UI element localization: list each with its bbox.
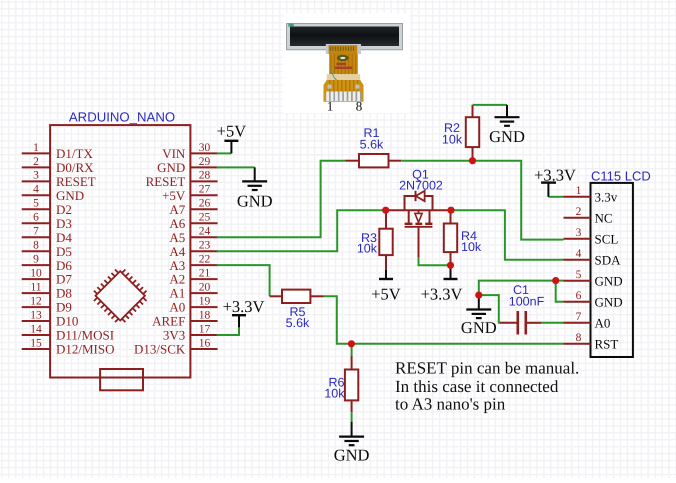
note text: [395, 358, 579, 413]
svg-text:to A3 nano's pin: to A3 nano's pin: [395, 394, 506, 413]
pin 25 A6: [169, 212, 217, 231]
svg-text:A7: A7: [169, 202, 185, 217]
resistor R2 leads: [472, 105, 474, 117]
svg-text:12: 12: [30, 295, 42, 307]
svg-text:10k: 10k: [442, 133, 463, 147]
svg-text:28: 28: [199, 170, 211, 182]
svg-text:GND: GND: [595, 274, 623, 289]
power +3.3V (R4 bottom): [421, 265, 463, 303]
power +5V (nano VIN): [217, 121, 247, 153]
ground GND (R6 bottom): [334, 422, 370, 465]
pin 26 A7: [169, 198, 217, 217]
wire to C115 pin6: [556, 281, 564, 302]
svg-text:VIN: VIN: [162, 146, 186, 161]
pin 23 A4: [169, 240, 217, 259]
pin 28 RESET: [146, 170, 218, 189]
nano chip icon (rotated QFP): [94, 270, 147, 323]
svg-text:A0: A0: [595, 316, 611, 331]
pin 6 D3: [22, 212, 72, 231]
connector pin 8 RST: [564, 332, 619, 351]
svg-text:GND: GND: [157, 160, 185, 175]
power +3.3V (C115 pin1): [534, 166, 576, 197]
resistor R2: [466, 117, 479, 147]
svg-text:2: 2: [33, 156, 39, 168]
svg-text:NC: NC: [595, 211, 613, 226]
wire R6 top: [351, 344, 353, 356]
svg-text:3.3v: 3.3v: [595, 190, 618, 205]
svg-text:9: 9: [33, 254, 39, 266]
svg-text:8: 8: [576, 332, 582, 344]
svg-text:D5: D5: [56, 244, 72, 259]
wire pin30 to +5V: [217, 152, 232, 154]
resistor R5: [282, 290, 310, 303]
svg-text:RESET: RESET: [56, 174, 96, 189]
ground GND (C1): [461, 295, 497, 337]
svg-text:21: 21: [199, 268, 211, 280]
svg-text:20: 20: [199, 282, 211, 294]
pin 22 A3: [169, 254, 217, 273]
junction RST net / R6 top: [348, 340, 355, 347]
svg-text:RESET pin can be manual.: RESET pin can be manual.: [395, 358, 579, 377]
transistor Q1 2N7002 (MOSFET with body diode): [386, 191, 451, 227]
svg-text:D13/SCK: D13/SCK: [134, 342, 186, 357]
LCD module photo: [283, 13, 410, 114]
svg-text:D8: D8: [56, 286, 72, 301]
pin 16 D13/SCK: [134, 337, 218, 356]
pin 11 D8: [22, 282, 72, 301]
pin 5 D2: [22, 198, 72, 217]
connector pin 5 GND: [564, 269, 623, 288]
svg-text:+5V: +5V: [162, 188, 186, 203]
svg-text:+5V: +5V: [217, 121, 247, 140]
svg-text:10k: 10k: [461, 240, 482, 254]
wire A3 (pin22) to R5: [217, 265, 270, 296]
junction Q1 source / R3 top: [382, 207, 389, 214]
svg-text:2N7002: 2N7002: [399, 178, 443, 192]
svg-text:22: 22: [199, 254, 211, 266]
svg-text:SCL: SCL: [595, 232, 619, 247]
svg-text:RESET: RESET: [146, 174, 186, 189]
pin 29 GND: [157, 156, 217, 175]
svg-text:ARDUINO_NANO: ARDUINO_NANO: [69, 110, 175, 125]
svg-text:29: 29: [199, 156, 211, 168]
svg-text:17: 17: [199, 323, 211, 335]
svg-text:7: 7: [33, 226, 39, 238]
svg-text:10k: 10k: [324, 387, 345, 401]
junction GND pin5 / pin6: [552, 277, 559, 284]
svg-text:+5V: +5V: [371, 284, 401, 303]
svg-text:D6: D6: [56, 258, 72, 273]
svg-text:4: 4: [576, 248, 582, 260]
svg-text:A3: A3: [169, 258, 185, 273]
junction R2 bottom / SCL net: [469, 157, 476, 164]
svg-text:GND: GND: [334, 445, 370, 464]
pin 30 VIN: [162, 142, 217, 161]
svg-text:D4: D4: [56, 230, 72, 245]
connector J? C115 LCD box: [591, 183, 633, 357]
pin 3 RESET: [22, 170, 96, 189]
svg-text:D7: D7: [56, 272, 72, 287]
svg-text:GND: GND: [595, 295, 623, 310]
pin 7 D4: [22, 226, 73, 245]
connector pin 3 SCL: [564, 227, 619, 246]
power +5V (R3 bottom): [371, 270, 401, 304]
resistor R3: [379, 229, 392, 255]
wire junction to C1 left: [479, 295, 501, 323]
pin 12 D9: [22, 295, 72, 314]
capacitor C1 plates: [516, 311, 519, 335]
pin 15 D12/MISO: [22, 337, 115, 356]
wire R1 to SCL (C115 pin3): [401, 161, 563, 240]
svg-text:+3.3V: +3.3V: [534, 166, 576, 185]
svg-text:100nF: 100nF: [509, 294, 545, 308]
junction Q1 drain / R4 top: [447, 207, 454, 214]
connector pin 1 3.3v: [564, 185, 618, 204]
svg-text:27: 27: [199, 184, 211, 196]
pin 27 +5V: [162, 184, 218, 203]
ground GND (R2 top): [489, 105, 525, 146]
pin 19 A0: [169, 295, 217, 314]
svg-text:7: 7: [576, 311, 582, 323]
resistor R4 leads: [450, 210, 452, 223]
svg-text:D2: D2: [56, 202, 72, 217]
capacitor C1 leads: [500, 322, 517, 324]
resistor R6: [345, 370, 358, 401]
wire Q1 drain to SDA (C115 pin4): [451, 210, 564, 260]
connector pin 7 A0: [564, 311, 611, 330]
svg-text:18: 18: [199, 309, 211, 321]
wire 3V3 (pin17) to +3.3V: [217, 327, 239, 335]
pin 17 3V3: [163, 323, 218, 342]
svg-text:8: 8: [356, 99, 363, 114]
pin 2 D0/RX: [22, 156, 94, 175]
Q1 body diode: [415, 191, 417, 201]
resistor R3 leads: [385, 210, 387, 229]
nano bottom connector rectangle: [100, 369, 143, 390]
pin 13 D10: [22, 309, 79, 328]
pin 8 D5: [22, 240, 72, 259]
pin 9 D6: [22, 254, 73, 273]
wire A4 (pin23) to Q1 source: [217, 210, 386, 251]
svg-text:1: 1: [33, 142, 39, 154]
pin 20 A1: [169, 282, 217, 301]
svg-text:D9: D9: [56, 300, 72, 315]
pin 14 D11/MOSI: [22, 323, 114, 342]
resistor R4: [444, 224, 457, 253]
pin 24 A5: [169, 226, 217, 245]
svg-text:3V3: 3V3: [163, 328, 185, 343]
svg-text:D1/TX: D1/TX: [56, 146, 93, 161]
connector pin 4 SDA: [564, 248, 622, 267]
svg-text:3: 3: [576, 227, 582, 239]
svg-text:5: 5: [576, 269, 582, 281]
connector pin 2 NC: [564, 206, 613, 225]
svg-text:A1: A1: [169, 286, 185, 301]
svg-text:A4: A4: [169, 244, 185, 259]
svg-text:10: 10: [30, 268, 42, 280]
svg-text:25: 25: [199, 212, 211, 224]
svg-text:23: 23: [199, 240, 211, 252]
svg-text:15: 15: [30, 337, 42, 349]
svg-text:D12/MISO: D12/MISO: [56, 342, 115, 357]
pin 4 GND: [22, 184, 84, 203]
pin 21 A2: [169, 268, 217, 287]
wire R2 top to GND: [473, 104, 508, 106]
svg-text:30: 30: [199, 142, 211, 154]
svg-text:11: 11: [30, 282, 41, 294]
ground GND (nano pin29): [237, 167, 273, 210]
svg-text:A2: A2: [169, 272, 185, 287]
wire A5 (pin24) to R1: [217, 161, 346, 238]
svg-text:5.6k: 5.6k: [286, 316, 310, 330]
pin 18 AREF: [152, 309, 218, 328]
svg-text:AREF: AREF: [152, 314, 185, 329]
svg-text:8: 8: [33, 240, 39, 252]
resistor R5 leads: [270, 295, 282, 297]
svg-text:D3: D3: [56, 216, 72, 231]
junction R4 bottom / gate / +3.3V: [447, 262, 454, 269]
svg-text:6: 6: [33, 212, 39, 224]
resistor R1: [359, 154, 389, 167]
svg-text:+3.3V: +3.3V: [421, 284, 463, 303]
svg-text:A0: A0: [169, 300, 185, 315]
pin 1 D1/TX: [22, 142, 94, 161]
svg-text:A6: A6: [169, 216, 185, 231]
junction GND symbol / C1: [475, 292, 482, 299]
svg-text:GND: GND: [56, 188, 84, 203]
svg-text:C115 LCD: C115 LCD: [591, 169, 651, 184]
IC U? ARDUINO_NANO symbol box: [50, 125, 190, 377]
power +3.3V (nano 3V3): [223, 297, 265, 327]
svg-text:14: 14: [30, 323, 42, 335]
connector pin 6 GND: [564, 290, 623, 309]
resistor R1 leads: [345, 160, 359, 162]
svg-text:1: 1: [327, 99, 334, 114]
wire R6 bottom: [351, 412, 353, 421]
svg-text:2: 2: [576, 206, 582, 218]
svg-text:SDA: SDA: [595, 253, 622, 268]
svg-text:D10: D10: [56, 314, 78, 329]
svg-text:10k: 10k: [357, 242, 378, 256]
svg-text:6: 6: [576, 290, 582, 302]
resistor R6 leads: [351, 356, 353, 370]
wire R5 to RST (C115 pin8): [324, 296, 564, 344]
wire GND net to C115 pin5: [479, 281, 564, 296]
svg-text:In this case it connected: In this case it connected: [395, 377, 559, 396]
svg-text:26: 26: [199, 198, 211, 210]
svg-text:1: 1: [576, 185, 582, 197]
svg-text:19: 19: [199, 295, 211, 307]
wire pin29 to GND: [217, 166, 255, 168]
svg-text:13: 13: [30, 309, 42, 321]
svg-text:A5: A5: [169, 230, 185, 245]
svg-text:D0/RX: D0/RX: [56, 160, 94, 175]
svg-text:D11/MOSI: D11/MOSI: [56, 328, 114, 343]
pin 10 D7: [22, 268, 73, 287]
svg-text:RST: RST: [595, 337, 619, 352]
svg-text:GND: GND: [461, 318, 497, 337]
svg-text:GND: GND: [237, 192, 273, 211]
svg-text:24: 24: [199, 226, 211, 238]
wire Q1 gate to R4 bottom: [418, 227, 420, 257]
svg-text:GND: GND: [489, 127, 525, 146]
svg-text:4: 4: [33, 184, 39, 196]
svg-text:3: 3: [33, 170, 39, 182]
svg-text:+3.3V: +3.3V: [223, 297, 265, 316]
svg-text:5.6k: 5.6k: [360, 138, 384, 152]
svg-text:5: 5: [33, 198, 39, 210]
svg-text:16: 16: [199, 337, 211, 349]
wire C1 right to A0 (C115 pin7): [541, 322, 564, 324]
